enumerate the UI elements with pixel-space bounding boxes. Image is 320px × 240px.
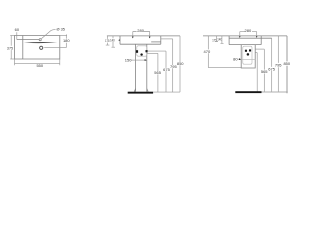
dim 280 line bbox=[240, 31, 257, 33]
bottom edge extension left bbox=[10, 58, 14, 60]
svg-text:470: 470 bbox=[204, 49, 211, 54]
dim 470 bottom extension bbox=[208, 67, 241, 69]
pedestal right edge bbox=[146, 44, 148, 91]
dim 280 right tick with arrow bbox=[256, 32, 258, 37]
pedestal base flare right bbox=[147, 89, 148, 92]
drain box internal line bbox=[241, 59, 255, 61]
floor extension line bbox=[262, 91, 288, 93]
svg-text:280: 280 bbox=[245, 28, 252, 33]
dim 675 extension bbox=[255, 48, 264, 50]
wall line with 850 label bbox=[286, 36, 288, 93]
dim 795 labelled line bbox=[277, 36, 279, 92]
dim 180 vertical line bbox=[65, 34, 67, 47]
svg-text:Ø 35: Ø 35 bbox=[57, 27, 65, 32]
dim 180 top extension bbox=[60, 35, 67, 37]
dim 280 left tick with arrow bbox=[132, 32, 134, 37]
inner side line bbox=[22, 36, 24, 60]
deck top line with extensions bbox=[107, 35, 180, 37]
bolt hole left bbox=[136, 50, 138, 53]
svg-text:850: 850 bbox=[283, 61, 290, 66]
svg-text:795: 795 bbox=[275, 63, 282, 68]
dim 795 extension bbox=[161, 38, 173, 40]
svg-text:375: 375 bbox=[7, 46, 13, 50]
pedestal base flare left bbox=[134, 89, 135, 92]
dim 375 vertical line bbox=[10, 36, 12, 60]
inner rim line bbox=[17, 39, 39, 41]
tap hole circle bbox=[39, 39, 41, 41]
dim 565 vertical line bbox=[256, 53, 258, 92]
basin right edge bbox=[260, 36, 262, 45]
drain dot bbox=[247, 53, 250, 56]
svg-text:550: 550 bbox=[36, 63, 43, 68]
top edge extension left bbox=[10, 35, 14, 37]
dim 550 extension ticks bbox=[15, 59, 60, 65]
bolt hole right bbox=[249, 49, 251, 51]
dim 140 arrow mark bbox=[118, 39, 120, 41]
dim 175 line and end dash bbox=[106, 36, 110, 45]
overflow mark line bbox=[151, 41, 161, 43]
dim 470 vertical line bbox=[207, 36, 209, 68]
svg-text:180: 180 bbox=[63, 38, 70, 43]
basin outline rect bbox=[15, 36, 60, 60]
basin left edge bbox=[119, 36, 121, 44]
drain inner box bbox=[243, 46, 252, 64]
mounting plate outline bbox=[137, 46, 147, 56]
bolt hole right bbox=[146, 50, 148, 52]
svg-text:280: 280 bbox=[137, 28, 144, 33]
drain box outline bbox=[241, 45, 255, 68]
svg-text:850: 850 bbox=[177, 61, 184, 66]
dim 565 vertical line bbox=[157, 53, 159, 92]
basin bottom line bbox=[120, 43, 161, 45]
dim 565 extension bbox=[255, 52, 257, 54]
dim 565 extension bbox=[147, 52, 158, 54]
label 80 leader with arrow bbox=[238, 58, 240, 60]
drain leader to 180 line bbox=[44, 47, 66, 49]
dim 150 line with arrow bbox=[131, 59, 146, 61]
bolt hole left bbox=[245, 50, 247, 52]
svg-text:60: 60 bbox=[15, 27, 20, 32]
drain dot bbox=[140, 53, 142, 55]
svg-text:175: 175 bbox=[105, 39, 109, 43]
dim 675 extension bbox=[147, 50, 166, 52]
svg-text:140: 140 bbox=[110, 38, 115, 42]
deck top line to wall bbox=[203, 35, 287, 37]
leader to dia 35 bbox=[41, 30, 55, 39]
dim 140 tick and dash bbox=[221, 36, 224, 43]
dim 60 tick bbox=[16, 32, 18, 39]
drain ring bbox=[40, 46, 43, 49]
dim 280 left tick with arrow bbox=[239, 32, 241, 37]
svg-text:80: 80 bbox=[233, 56, 238, 61]
base thick floor line bbox=[128, 92, 153, 94]
basin bottom line bbox=[229, 44, 261, 46]
dim 675 labelled line bbox=[271, 38, 273, 91]
dim 175 tick and dash bbox=[215, 36, 218, 42]
dim 850 vertical line bbox=[179, 36, 181, 92]
dim 280 right tick with arrow bbox=[149, 32, 151, 37]
pedestal left edge bbox=[135, 44, 137, 91]
floor thick line bbox=[235, 91, 261, 93]
dim 795 vertical line bbox=[172, 39, 174, 92]
dim 550 line bbox=[15, 63, 60, 65]
dim 565 labelled line bbox=[263, 49, 265, 92]
overflow lens thick line bbox=[24, 41, 57, 44]
dim 280 line bbox=[133, 31, 150, 33]
svg-text:565: 565 bbox=[154, 70, 161, 75]
basin right edge bbox=[160, 36, 162, 44]
svg-text:565: 565 bbox=[261, 69, 268, 74]
svg-text:140: 140 bbox=[217, 38, 222, 42]
floor extension line bbox=[153, 91, 180, 93]
dim 675 vertical line bbox=[165, 51, 167, 92]
dim 140 line and end dash bbox=[112, 36, 116, 47]
rim line with 795 extension bbox=[229, 37, 272, 39]
basin left edge bbox=[228, 36, 230, 45]
